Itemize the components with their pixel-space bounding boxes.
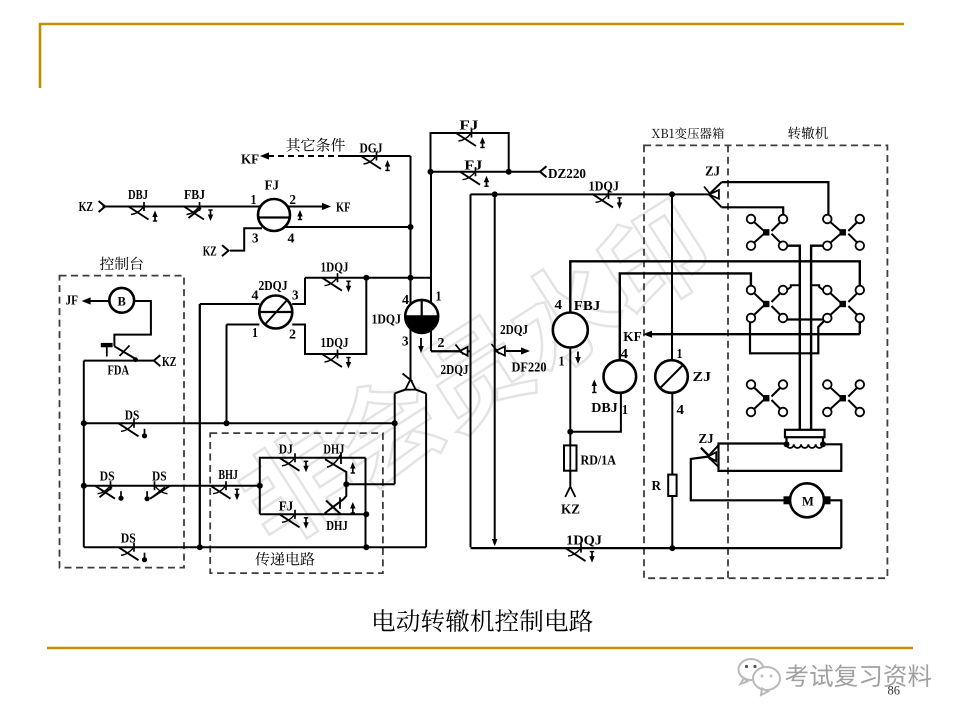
svg-text:86: 86 [888, 684, 901, 698]
svg-text:1DQJ: 1DQJ [321, 260, 349, 275]
svg-text:4: 4 [402, 292, 409, 307]
svg-text:4: 4 [621, 346, 629, 361]
svg-text:FBJ: FBJ [184, 187, 205, 202]
svg-text:FJ: FJ [464, 158, 482, 173]
svg-text:FDA: FDA [108, 363, 130, 378]
svg-text:DGJ: DGJ [360, 141, 383, 156]
svg-text:4: 4 [288, 231, 295, 246]
svg-text:KZ: KZ [79, 199, 94, 214]
svg-text:4: 4 [677, 402, 685, 417]
svg-text:BHJ: BHJ [218, 467, 238, 482]
svg-text:JF: JF [66, 293, 79, 308]
svg-text:2DQJ: 2DQJ [441, 362, 469, 377]
svg-text:KZ: KZ [561, 502, 580, 517]
svg-text:1DQJ: 1DQJ [321, 335, 349, 350]
svg-text:KF: KF [336, 200, 351, 215]
svg-text:1: 1 [622, 402, 628, 417]
svg-text:KF: KF [623, 329, 642, 344]
svg-text:DZ220: DZ220 [548, 166, 586, 181]
svg-text:3: 3 [292, 288, 299, 303]
svg-text:1: 1 [251, 192, 257, 207]
svg-text:2: 2 [289, 327, 296, 342]
svg-text:2: 2 [290, 192, 297, 207]
svg-text:FBJ: FBJ [574, 298, 601, 313]
svg-text:1DQJ: 1DQJ [566, 533, 602, 548]
svg-text:1DQJ: 1DQJ [589, 179, 620, 194]
svg-text:KZ: KZ [203, 244, 217, 259]
svg-text:1: 1 [252, 325, 258, 340]
svg-text:FJ: FJ [265, 178, 280, 193]
svg-text:R: R [652, 478, 662, 493]
svg-text:FJ: FJ [279, 499, 294, 514]
svg-text:2DQJ: 2DQJ [259, 278, 288, 293]
svg-text:DBJ: DBJ [128, 187, 148, 202]
svg-text:DS: DS [100, 469, 115, 484]
svg-text:4: 4 [252, 288, 259, 303]
svg-text:DF220: DF220 [512, 360, 547, 375]
svg-text:DS: DS [152, 469, 167, 484]
svg-text:ZJ: ZJ [699, 431, 714, 446]
svg-text:M: M [802, 495, 814, 509]
svg-text:2DQJ: 2DQJ [500, 322, 528, 337]
svg-text:4: 4 [555, 297, 563, 312]
svg-text:DBJ: DBJ [591, 400, 618, 415]
svg-text:KF: KF [241, 152, 259, 167]
svg-text:DS: DS [121, 531, 136, 546]
svg-text:1: 1 [436, 289, 442, 304]
svg-text:ZJ: ZJ [693, 369, 712, 384]
svg-text:3: 3 [252, 231, 259, 246]
svg-text:ZJ: ZJ [705, 164, 720, 179]
svg-text:FJ: FJ [459, 118, 478, 133]
svg-text:DHJ: DHJ [323, 442, 344, 457]
svg-text:RD/1A: RD/1A [581, 453, 617, 468]
svg-text:KZ: KZ [162, 354, 177, 369]
svg-text:2: 2 [438, 335, 445, 350]
svg-text:3: 3 [402, 334, 409, 349]
svg-text:DHJ: DHJ [326, 518, 348, 533]
svg-text:1DQJ: 1DQJ [372, 312, 402, 327]
svg-text:1: 1 [559, 354, 565, 369]
svg-text:DJ: DJ [279, 442, 293, 457]
svg-text:1: 1 [677, 346, 683, 361]
svg-text:DS: DS [125, 408, 140, 423]
svg-text:B: B [118, 295, 126, 309]
